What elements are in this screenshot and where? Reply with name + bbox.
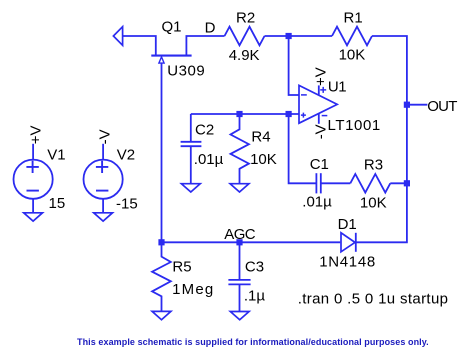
V2 bottom pin (102, 199, 104, 213)
svg-text:U309: U309 (167, 63, 205, 80)
wire C1 to R3 (321, 182, 351, 184)
resistor R2 (225, 27, 265, 46)
svg-text:.01µ: .01µ (194, 151, 224, 168)
V1 bottom pin (32, 199, 34, 213)
node OUT junction (404, 102, 410, 108)
node junction R4 top (236, 111, 242, 117)
op-amp top power stub (318, 85, 320, 94)
svg-text:D1: D1 (338, 216, 357, 233)
V1 top pin (32, 144, 34, 160)
ground V1 (24, 213, 43, 221)
svg-text:Q1: Q1 (162, 19, 182, 36)
wire R3 to rail (390, 182, 407, 184)
svg-text:U1: U1 (328, 78, 346, 95)
svg-text:-V: -V (97, 129, 114, 144)
svg-text:R1: R1 (344, 10, 363, 27)
svg-text:.1µ: .1µ (244, 288, 266, 305)
svg-text:.tran 0 .5 0 1u startup: .tran 0 .5 0 1u startup (298, 291, 449, 308)
svg-text:R4: R4 (251, 128, 270, 145)
ground R5 (152, 311, 171, 319)
svg-text:10K: 10K (339, 47, 366, 64)
node junction C3 (236, 239, 242, 245)
svg-text:D: D (205, 20, 216, 37)
V2 plus mark (96, 161, 108, 173)
svg-text:This example schematic is supp: This example schematic is supplied for i… (77, 337, 429, 347)
V2 minus mark (96, 190, 108, 192)
voltage source V1 circle (13, 160, 52, 199)
svg-text:1N4148: 1N4148 (319, 254, 376, 271)
wire arrow to source stub (123, 36, 156, 55)
svg-text:15: 15 (49, 195, 66, 212)
resistor R3 (350, 174, 390, 193)
capacitor C3 (239, 242, 241, 280)
svg-text:OUT: OUT (427, 98, 457, 115)
ground C3 (230, 312, 249, 320)
diode D1 cathode bar (355, 233, 357, 252)
op-amp bottom power stub (318, 113, 320, 124)
voltage source V2 circle (84, 160, 123, 199)
wire OUT stub (407, 104, 428, 106)
svg-text:LT1001: LT1001 (328, 117, 381, 134)
op-amp inverting input mark (301, 94, 307, 96)
svg-text:V2: V2 (117, 147, 135, 164)
svg-text:R3: R3 (364, 156, 383, 173)
svg-text:V1: V1 (47, 147, 65, 164)
wire R2 to R1 (265, 35, 333, 37)
wire R1 to right rail, down to D1 leg (355, 36, 407, 242)
capacitor C1 (315, 173, 317, 193)
V1 minus mark (27, 190, 39, 192)
op-amp non-inverting input mark (301, 113, 306, 118)
capacitor C2 (190, 114, 192, 142)
svg-text:+V: +V (312, 67, 329, 86)
svg-text:10K: 10K (360, 194, 387, 211)
ground C2 (181, 184, 200, 192)
diode D1 (341, 233, 355, 252)
op-amp U1 triangle (299, 85, 337, 123)
wire rail + input down to C1 branch (289, 114, 317, 183)
node junction R2/R1/rail (286, 33, 292, 39)
wire C2 / R4 to non-inverting input (191, 113, 299, 115)
ground V2 (94, 213, 113, 221)
svg-text:1Meg: 1Meg (172, 281, 214, 298)
transistor Q1 gate arrowhead (159, 57, 164, 63)
transistor Q1 channel bar (151, 55, 191, 57)
resistor R5 (152, 242, 171, 311)
svg-text:4.9K: 4.9K (229, 47, 260, 64)
op-amp plus mark top pin (320, 87, 326, 93)
V2 top pin (102, 144, 104, 160)
svg-text:.01µ: .01µ (302, 193, 332, 210)
svg-text:+V: +V (28, 126, 45, 145)
arrow terminal at JFET source (113, 27, 122, 46)
ground R4 (230, 184, 249, 192)
node junction R5/gate rail (158, 239, 164, 245)
resistor R4 (231, 114, 249, 184)
svg-text:C2: C2 (195, 121, 214, 138)
svg-text:R5: R5 (172, 259, 191, 276)
op-amp minus mark bottom pin (322, 115, 328, 117)
transistor Q1 drain stub (186, 36, 224, 55)
wire AGC (162, 241, 341, 243)
wire gate rail down to AGC (161, 63, 163, 242)
svg-text:C3: C3 (245, 258, 264, 275)
svg-text:10K: 10K (250, 151, 277, 168)
wire rail junction to inverting input (289, 36, 299, 95)
node junction + input rail (286, 111, 292, 117)
svg-text:R2: R2 (236, 9, 255, 26)
resistor R1 (332, 27, 372, 46)
svg-text:C1: C1 (310, 156, 329, 173)
svg-text:-15: -15 (116, 196, 138, 213)
V1 plus mark (26, 161, 38, 173)
node junction R3/D1/rail (404, 180, 410, 186)
